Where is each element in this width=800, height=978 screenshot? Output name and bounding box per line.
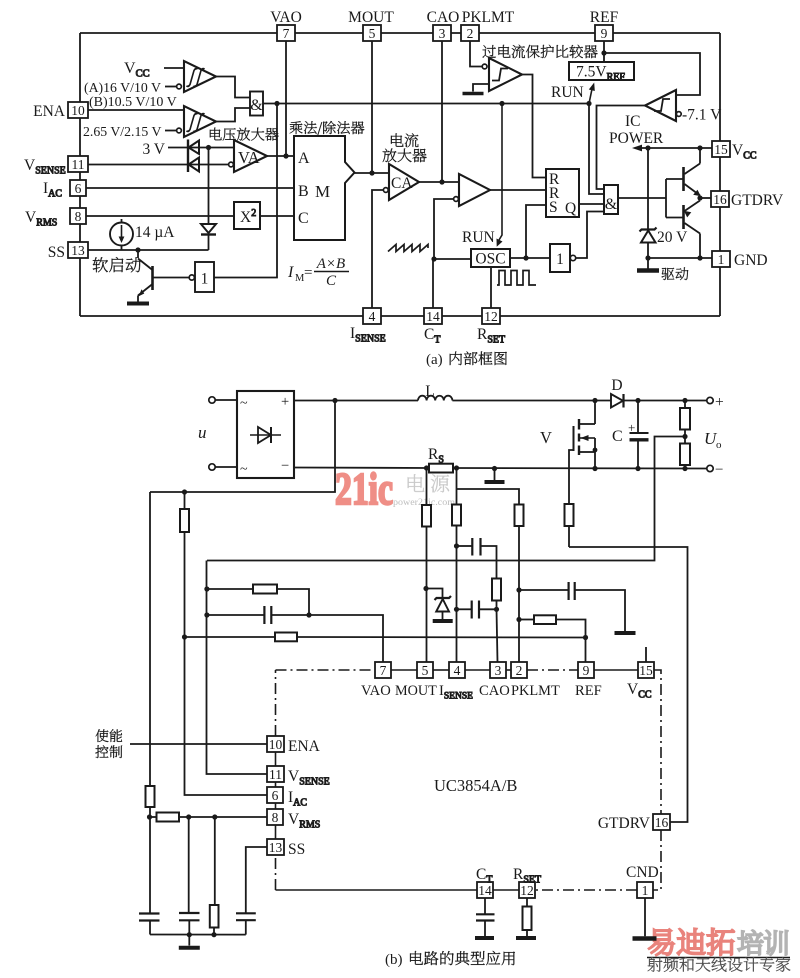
ground pklmt cap <box>615 631 636 635</box>
pin 7 (b) top <box>375 662 391 678</box>
svg-text:16: 16 <box>655 815 669 830</box>
svg-text:8: 8 <box>272 810 279 825</box>
transistor Q1 soft start <box>138 250 153 302</box>
wire U5 out to G3 <box>597 106 646 190</box>
block X2 <box>234 202 260 229</box>
label PKLMT (b) <box>511 683 560 699</box>
ground common <box>485 469 505 483</box>
svg-text:A: A <box>298 150 310 167</box>
watermark dianyuan <box>408 474 450 492</box>
transistor Q2 NPN driver <box>684 164 701 197</box>
label VCC input <box>124 60 184 80</box>
label UC3854A/B <box>434 776 517 795</box>
wire CT pin14 <box>432 259 434 308</box>
pin 5 MOUT (a) <box>348 9 394 41</box>
label Uo <box>704 429 722 451</box>
svg-text:GND: GND <box>734 252 768 269</box>
resistor R vrms3 <box>210 817 219 937</box>
comparator U4 overcurrent <box>482 58 522 91</box>
resistor R pklmt pickoff <box>457 489 524 662</box>
wire bridge+ sample drop <box>150 401 335 495</box>
svg-text:o: o <box>716 439 722 451</box>
label ISENSE (b) <box>439 683 473 702</box>
pin 9 (b) top <box>578 662 594 678</box>
wire D to output+ <box>624 398 707 403</box>
IC UC3854 outline <box>276 670 662 890</box>
wire ISENSE pin4 to CA- <box>372 190 383 308</box>
wire CA out <box>419 179 459 184</box>
svg-text:MOUT: MOUT <box>395 683 437 699</box>
svg-text:2: 2 <box>467 26 474 41</box>
svg-text:6: 6 <box>75 181 82 196</box>
label (B)10.5V/10V <box>89 95 177 110</box>
svg-text:S: S <box>549 199 558 216</box>
svg-text:14: 14 <box>426 309 440 324</box>
comparator U2 ENA schmitt <box>177 106 216 137</box>
label VCC (b) <box>627 681 652 701</box>
ground Q1 emitter <box>127 302 149 306</box>
svg-text:11: 11 <box>72 157 85 172</box>
op-amp VA <box>229 140 267 172</box>
wire U4+ to ground <box>473 84 489 92</box>
svg-text:(A)16 V/10 V: (A)16 V/10 V <box>84 80 161 96</box>
resistor RS shunt <box>428 446 453 473</box>
wire right border (a) <box>719 33 721 316</box>
pulse waveform <box>497 271 536 286</box>
flipflop FF1 RS <box>546 169 579 217</box>
capacitor C ca pole <box>457 601 497 619</box>
svg-text:4: 4 <box>454 663 461 678</box>
svg-text:IC: IC <box>625 113 641 130</box>
svg-text:(a): (a) <box>426 352 443 368</box>
wire VCC stub <box>645 647 647 662</box>
wire X2 to C <box>260 215 294 217</box>
label 7.1V <box>682 107 722 124</box>
label MOUT (b) <box>395 683 437 699</box>
wire gate lead <box>569 450 574 504</box>
wire U2 out to G1 <box>216 108 250 122</box>
wire G4 to G3 <box>576 212 604 259</box>
wire OSC out <box>510 255 550 260</box>
svg-text:C: C <box>298 210 309 227</box>
wire REF divider to U5 <box>604 53 700 95</box>
svg-text:7: 7 <box>283 26 290 41</box>
resistor R mout <box>422 468 431 662</box>
label guodianliu baohu bijiaoqi <box>483 45 598 59</box>
wire VSENSE to VA- <box>88 164 228 166</box>
wire VSENSE riser <box>204 561 267 775</box>
wire gate drive run <box>569 547 688 822</box>
pin 4 ISENSE (a) <box>350 308 386 345</box>
pin 2 (b) top <box>511 662 527 678</box>
resistor R pklmt ref <box>519 615 588 662</box>
label 20V <box>657 229 688 246</box>
svg-text:(b): (b) <box>385 952 403 968</box>
resistor R gate <box>565 504 574 547</box>
svg-text:PKLMT: PKLMT <box>511 683 560 699</box>
diode D3 soft start clamp <box>201 148 216 251</box>
wire VA out to multiplier A <box>267 153 294 158</box>
svg-text:&: & <box>250 97 263 114</box>
comparator U3 PWM <box>454 174 490 206</box>
svg-text:REF: REF <box>590 9 619 26</box>
label VAO (b) <box>361 683 391 699</box>
svg-text:ENA: ENA <box>33 103 66 120</box>
label chengfa chufaqi <box>290 121 365 135</box>
resistor R ca <box>492 579 501 612</box>
svg-text:CND: CND <box>626 864 659 881</box>
svg-text:1: 1 <box>642 883 649 898</box>
svg-text:7: 7 <box>380 663 387 678</box>
driver base bracket <box>666 179 683 218</box>
pin 14 CT (a) <box>424 308 442 346</box>
svg-text:A×B: A×B <box>316 256 345 272</box>
svg-text:Q: Q <box>565 200 576 217</box>
svg-text:10: 10 <box>269 737 283 752</box>
watermark 21ic <box>335 463 393 514</box>
pin 6 IAC (b) <box>267 787 307 809</box>
watermark power21ic.com <box>393 498 456 508</box>
pin 15 (b) top <box>638 662 654 678</box>
ground filter <box>179 935 200 948</box>
svg-text:3: 3 <box>495 663 502 678</box>
label dianya fangdaqi <box>210 128 279 141</box>
label RUN (osc) <box>462 229 495 246</box>
wire IAC to B <box>86 187 294 189</box>
label qudong <box>662 267 689 280</box>
label IC POWER <box>609 113 664 147</box>
wire GTDRV node <box>697 195 711 200</box>
label (A)16V/10V <box>84 80 176 96</box>
svg-text:~: ~ <box>240 396 248 411</box>
svg-text:V: V <box>540 428 552 447</box>
svg-text:8: 8 <box>75 209 82 224</box>
svg-text:CAO: CAO <box>479 683 510 699</box>
inverter G2 <box>153 262 215 292</box>
svg-text:20 V: 20 V <box>657 229 688 246</box>
svg-text:13: 13 <box>269 840 283 855</box>
block 7.5VREF <box>569 62 634 83</box>
capacitor C output <box>612 401 649 469</box>
svg-text:UC3854A/B: UC3854A/B <box>434 776 517 795</box>
pin 10 ENA (b) <box>267 736 321 755</box>
wire RUN rail <box>263 101 592 106</box>
pin 4 (b) top <box>449 662 465 678</box>
block OSC <box>471 249 510 268</box>
svg-text:11: 11 <box>269 767 282 782</box>
wire MOUT pin5 down <box>371 41 373 173</box>
capacitor C vrms1 <box>139 914 160 935</box>
svg-text:1: 1 <box>718 252 725 267</box>
arrow RUN to 7.5VREF <box>589 83 595 104</box>
pin 5 (b) top <box>417 662 433 678</box>
svg-text:1: 1 <box>201 271 209 288</box>
wire S input <box>526 205 546 258</box>
multiplier M1 block <box>294 136 355 240</box>
svg-text:B: B <box>298 183 309 200</box>
svg-text:21ic: 21ic <box>335 463 393 514</box>
pin 3 CAO (a) <box>427 9 460 41</box>
svg-text:−: − <box>715 462 723 478</box>
svg-text:OSC: OSC <box>475 251 505 268</box>
svg-text:2.65 V/2.15 V: 2.65 V/2.15 V <box>83 124 161 139</box>
op-amp CA <box>383 164 419 200</box>
pin 1 GND (b) <box>626 864 659 898</box>
pin 1 GND (a) <box>712 251 768 269</box>
wire Q2 collector <box>699 148 701 164</box>
wire GND rail (a) <box>648 257 712 259</box>
label shineng kongzhi <box>95 729 122 758</box>
wire CT to OSC <box>434 258 471 260</box>
pin 6 IAC (a) <box>43 180 86 200</box>
wire PKLMT pin2 to U4 <box>470 41 482 67</box>
resistor R vao <box>207 585 312 618</box>
svg-text:GTDRV: GTDRV <box>731 192 784 209</box>
zener D4 20V <box>640 148 657 261</box>
svg-text:SS: SS <box>288 841 305 858</box>
wire REF pin9 down <box>601 41 606 62</box>
wire U3 out to R2 input <box>490 189 546 191</box>
pin 11 VSENSE (a) <box>24 156 88 177</box>
resistor R divider bottom <box>680 444 690 469</box>
svg-text:M: M <box>315 182 330 201</box>
wire VCC rail with arrow <box>632 145 712 152</box>
caption (b) <box>385 951 515 968</box>
svg-text:10: 10 <box>71 103 85 118</box>
wire 3V to VA+ <box>168 145 234 150</box>
capacitor C vrms2 <box>179 817 200 937</box>
inverter G4 <box>550 244 576 272</box>
MOSFET V <box>540 401 597 469</box>
inductor L <box>418 383 452 401</box>
svg-text:POWER: POWER <box>609 130 664 147</box>
resistor R isense <box>452 468 461 662</box>
svg-text:15: 15 <box>714 142 728 157</box>
svg-text:−: − <box>281 458 289 474</box>
wire top rail (a) <box>80 32 720 34</box>
wire SS node <box>88 247 209 252</box>
label ruanqidong <box>93 257 141 272</box>
svg-text:GTDRV: GTDRV <box>598 815 651 832</box>
svg-text:CAO: CAO <box>427 9 460 26</box>
watermark tagline <box>648 957 791 972</box>
svg-text:2: 2 <box>516 663 523 678</box>
transistor Q3 PNP driver <box>684 201 701 234</box>
pin 13 SS (b) <box>267 839 305 858</box>
svg-text:5: 5 <box>369 26 376 41</box>
resistor R iac top <box>180 492 189 640</box>
current source I1 14uA <box>110 219 175 250</box>
svg-text:RUN: RUN <box>462 229 495 246</box>
svg-text:RUN: RUN <box>551 84 584 101</box>
comparator U5 UVLO 7.1V <box>645 90 681 121</box>
label REF (b) <box>575 683 602 699</box>
arrow RUN to OSC <box>497 104 503 247</box>
wire ENA to U2 <box>88 109 184 111</box>
label CAO (b) <box>479 683 510 699</box>
ground drive <box>637 258 659 271</box>
svg-text:3 V: 3 V <box>142 141 165 158</box>
pin 12 RSET (b) <box>513 866 541 898</box>
resistor R iac ref <box>185 633 586 642</box>
svg-text:+: + <box>628 420 635 435</box>
svg-text:16: 16 <box>713 192 727 207</box>
watermark yiditua peixun <box>647 928 790 957</box>
svg-text:9: 9 <box>583 663 590 678</box>
svg-text:15: 15 <box>639 663 653 678</box>
svg-text:+: + <box>715 394 724 411</box>
terminal output+ <box>707 394 724 411</box>
bridge rectifier BR1 <box>237 391 294 478</box>
svg-text:D: D <box>611 377 622 394</box>
sawtooth waveform <box>388 245 428 252</box>
pin 3 (b) top <box>490 662 506 678</box>
wire DC- rail <box>294 465 707 471</box>
wire G3 out to driver <box>618 197 666 199</box>
svg-text:&: & <box>605 196 618 213</box>
wire VRMS to X2 <box>86 215 234 217</box>
svg-text:SS: SS <box>48 244 65 261</box>
svg-text:I: I <box>287 264 294 281</box>
svg-text:=: = <box>304 265 312 281</box>
pin 13 SS (a) <box>48 242 88 261</box>
svg-text:CA: CA <box>391 175 413 192</box>
wire left tall drop <box>149 492 151 786</box>
pin 16 GTDRV (a) <box>711 191 784 209</box>
capacitor C ct <box>475 898 495 938</box>
capacitor C ca zero <box>457 538 497 579</box>
terminal output- <box>707 462 724 478</box>
label 3V <box>142 141 165 158</box>
wire bottom rail (a) <box>80 315 720 317</box>
svg-text:9: 9 <box>601 26 608 41</box>
wire G2 to RUN rail <box>214 104 277 278</box>
wire RSET pin12 <box>490 267 492 308</box>
wire left border (a) <box>79 33 81 316</box>
wire ENA control <box>130 743 267 745</box>
pin 15 VCC (a) <box>712 141 757 162</box>
terminal input top <box>209 397 237 403</box>
resistor R vrms series <box>150 813 267 822</box>
pin 9 REF (a) <box>590 9 619 41</box>
wire filter common rail <box>150 934 246 936</box>
capacitor C ss <box>236 847 267 935</box>
label 2.65V/2.15V <box>83 124 176 139</box>
resistor R vrms top <box>146 786 155 914</box>
capacitor C pklmt <box>519 582 625 631</box>
and gate G3 <box>604 185 618 214</box>
comparator U1 VCC schmitt <box>177 61 216 92</box>
pin 8 VRMS (a) <box>25 208 86 229</box>
svg-text:PKLMT: PKLMT <box>462 9 515 26</box>
caption (a) <box>426 351 507 368</box>
ground U4 <box>463 92 484 96</box>
svg-text:VA: VA <box>238 148 260 167</box>
wire DC+ rail <box>294 398 418 403</box>
svg-text:REF: REF <box>575 683 602 699</box>
wire Q3 collector to GND <box>697 234 702 261</box>
svg-text:~: ~ <box>240 462 248 477</box>
pin 12 RSET (a) <box>477 308 505 346</box>
wire VAO pin7 down <box>285 41 287 156</box>
svg-text:13: 13 <box>71 243 85 258</box>
svg-text:+: + <box>281 394 289 410</box>
svg-text:(B)10.5 V/10 V: (B)10.5 V/10 V <box>89 95 177 110</box>
wire CAO pin3 down <box>441 41 443 182</box>
label dianliu fangdaqi <box>383 133 427 162</box>
ground IC GND pin <box>633 898 657 939</box>
svg-text:C: C <box>612 428 623 445</box>
pin 16 GTDRV (b) <box>598 814 670 832</box>
wire RUN to G3 <box>589 104 604 195</box>
wire L to D <box>452 398 611 403</box>
svg-text:4: 4 <box>369 309 376 324</box>
label RUN (ref) <box>551 84 584 101</box>
wire VAO node to pin7 <box>309 615 383 662</box>
svg-text:6: 6 <box>272 788 279 803</box>
capacitor C vao <box>207 606 309 624</box>
wire CT ramp to U3- <box>431 199 453 262</box>
pin 10 ENA (a) <box>33 102 88 120</box>
label u <box>198 423 207 442</box>
svg-text:MOUT: MOUT <box>348 9 394 26</box>
wire U1 out to G1 <box>216 77 250 98</box>
wire feedback tap <box>207 437 685 561</box>
diode D boost <box>611 377 624 408</box>
pin 14 CT (b) <box>476 866 493 898</box>
resistor R set <box>516 898 536 938</box>
svg-text:ENA: ENA <box>288 738 321 755</box>
resistor R divider top <box>680 401 690 444</box>
svg-text:L: L <box>425 383 434 400</box>
svg-text:-7.1 V: -7.1 V <box>682 107 722 124</box>
wire multiplier out <box>355 170 390 175</box>
svg-text:5: 5 <box>422 663 429 678</box>
zener D5 mout clamp <box>426 589 453 622</box>
svg-text:1: 1 <box>556 251 564 268</box>
wire Q to G3 <box>579 203 604 205</box>
terminal input bottom <box>209 464 237 470</box>
svg-text:u: u <box>198 423 207 442</box>
and gate G1 <box>250 92 263 116</box>
zener pair D1 D2 <box>188 140 199 173</box>
svg-text:14 µA: 14 µA <box>135 224 175 241</box>
pin 7 VAO (a) <box>270 9 302 41</box>
label formula IM <box>287 256 349 289</box>
svg-text:VAO: VAO <box>361 683 391 699</box>
wire IAC down to pin6 <box>185 637 268 795</box>
pin 11 VSENSE (b) <box>267 766 330 788</box>
svg-text:VAO: VAO <box>270 9 302 26</box>
svg-text:12: 12 <box>484 309 498 324</box>
wire U4 out to R1 input <box>522 75 546 178</box>
svg-text:C: C <box>326 273 337 289</box>
svg-text:3: 3 <box>439 26 446 41</box>
pin 2 PKLMT (a) <box>461 9 515 41</box>
wire CAO node to pin3 <box>497 609 498 662</box>
pin 8 VRMS (b) <box>267 809 320 831</box>
